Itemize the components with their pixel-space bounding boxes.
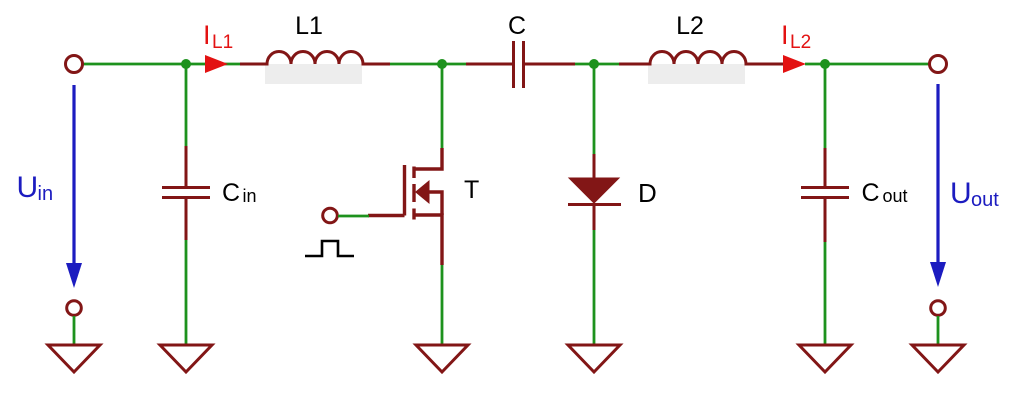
wire: node D down to C_out (green) <box>824 64 827 148</box>
wire: D to ground (green) <box>593 230 596 345</box>
inductor L1 highlight box <box>265 64 362 84</box>
pin: anode lead <box>593 154 596 178</box>
gate terminal circle <box>323 208 338 223</box>
svg-text:C: C <box>862 179 880 207</box>
inductor L2 <box>619 52 784 65</box>
wire: node C down to D (green) <box>593 64 596 154</box>
current arrow I_L1 <box>205 55 228 73</box>
ground (C_out) <box>799 345 851 372</box>
pin: drain lead <box>414 148 442 169</box>
cathode bar <box>568 203 621 206</box>
wire: input bottom terminal to ground (green stub) <box>73 316 76 345</box>
svg-text:T: T <box>464 176 479 204</box>
gate bar <box>403 165 406 216</box>
ground (C_in) <box>160 345 212 372</box>
node C (junction C / D / L2) <box>589 59 599 69</box>
wire: C_in to ground (green) <box>185 240 188 345</box>
svg-text:D: D <box>638 178 657 208</box>
svg-text:in: in <box>243 186 257 206</box>
svg-text:C: C <box>508 12 526 40</box>
wire: output bottom terminal to ground (green stub) <box>937 316 940 345</box>
svg-text:out: out <box>883 186 908 206</box>
capacitor C (series) <box>466 41 575 88</box>
node D (junction L2 / C_out / output) <box>820 59 830 69</box>
svg-text:I: I <box>781 20 789 50</box>
svg-text:L2: L2 <box>676 12 704 40</box>
svg-text:in: in <box>38 183 54 205</box>
pin: source lead <box>414 215 442 265</box>
input bottom terminal circle <box>67 301 82 316</box>
svg-text:I: I <box>203 20 211 50</box>
pin: gate lead <box>368 214 405 217</box>
svg-text:L2: L2 <box>790 32 811 53</box>
node A (junction input / C_in) <box>181 59 191 69</box>
wire: node A down to C_in (green) <box>185 64 188 146</box>
label I_L1 <box>203 20 233 53</box>
pin: cathode lead <box>593 206 596 230</box>
ground (T) <box>416 345 468 372</box>
transistor T (N-MOSFET) <box>368 148 442 265</box>
svg-text:U: U <box>17 171 39 204</box>
output terminal circle <box>930 56 947 73</box>
ground (output) <box>912 345 964 372</box>
svg-text:L1: L1 <box>295 12 323 40</box>
body connection with source <box>429 192 442 215</box>
svg-text:U: U <box>950 177 972 210</box>
voltage arrow U_out (blue) <box>930 84 946 287</box>
wire: C_out to ground (green) <box>824 242 827 345</box>
label C_in <box>222 179 257 207</box>
channel segment (top) <box>412 167 415 179</box>
wire: T source to ground (green) <box>441 265 444 345</box>
capacitor C_out <box>801 148 849 242</box>
input terminal circle <box>66 56 83 73</box>
ground (input) <box>48 345 100 372</box>
anode triangle <box>569 178 619 203</box>
inductor L1 <box>240 52 390 65</box>
ground (D) <box>568 345 620 372</box>
inductor L2 highlight box <box>648 64 745 84</box>
body arrow of T <box>415 180 430 204</box>
voltage arrow U_in (blue) <box>66 85 82 288</box>
channel segment (bottom) <box>412 209 415 220</box>
capacitor C_in <box>162 146 210 240</box>
wire: gate terminal to T gate (green) <box>338 215 369 218</box>
output bottom terminal circle <box>931 301 946 316</box>
current arrow I_L2 <box>783 55 806 73</box>
svg-text:L1: L1 <box>212 32 233 53</box>
wire: input terminal to L1 (green, top rail) <box>83 63 241 66</box>
label U_in <box>17 171 54 205</box>
svg-text:C: C <box>222 179 240 207</box>
wire: L1 to node B (green) <box>390 63 466 66</box>
svg-text:out: out <box>971 189 999 211</box>
gate drive pulse symbol <box>305 241 354 256</box>
diode D <box>568 154 621 230</box>
label U_out <box>950 177 999 211</box>
wire: node B down to T drain (green) <box>441 64 444 148</box>
wire: arrow I_L2 to output terminal (green) <box>805 63 929 66</box>
wire: C to node C (green) <box>575 63 620 66</box>
label I_L2 <box>781 20 811 53</box>
node B (junction L1 / T drain / C) <box>437 59 447 69</box>
channel segment (middle) <box>412 184 415 202</box>
label C_out <box>862 179 908 207</box>
